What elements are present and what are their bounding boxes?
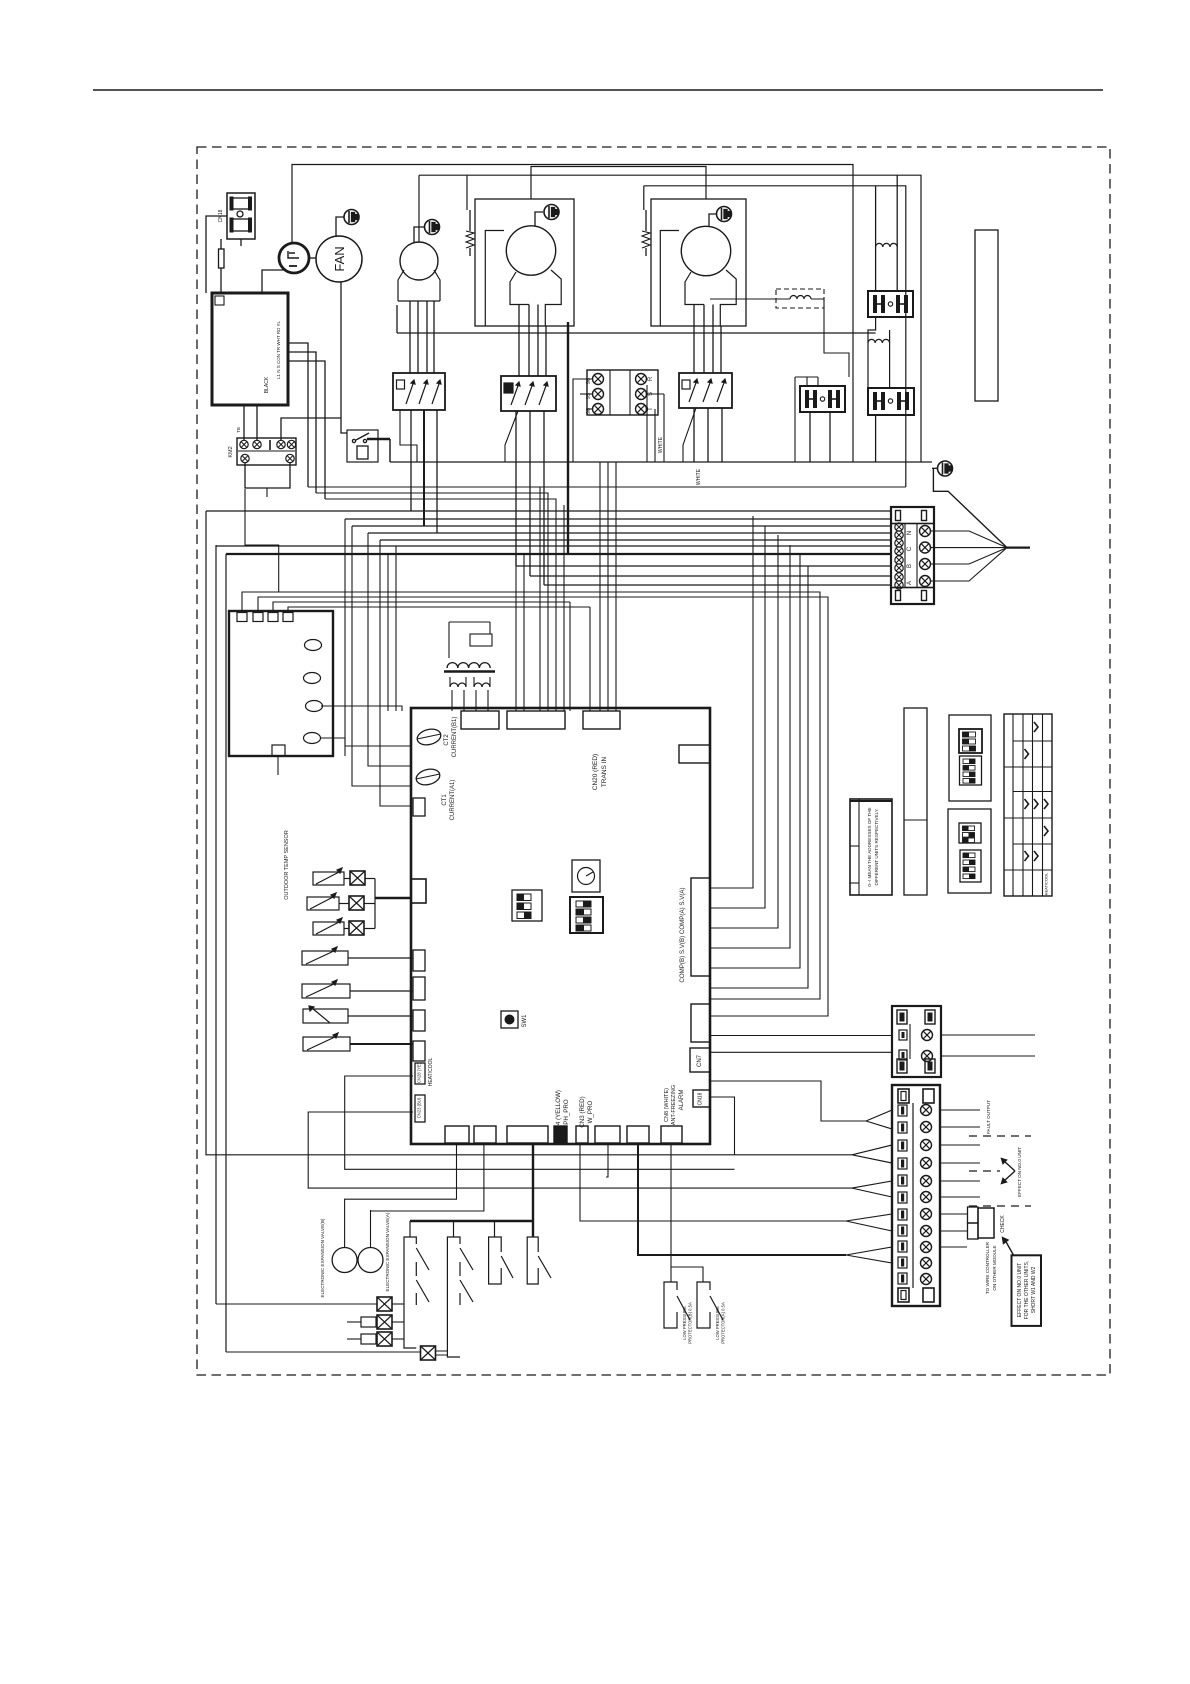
svg-text:CURRENT(A1): CURRENT(A1) xyxy=(450,780,456,821)
svg-text:LOW PRESSURE: LOW PRESSURE xyxy=(715,1306,720,1340)
svg-text:TRANS IN: TRANS IN xyxy=(601,757,608,788)
svg-text:PH_PRO: PH_PRO xyxy=(563,1099,570,1125)
svg-text:WHITE: WHITE xyxy=(696,468,702,485)
svg-text:DIFFERENT UNITS RESPECTIVELY.: DIFFERENT UNITS RESPECTIVELY. xyxy=(874,808,879,885)
svg-text:WHITE: WHITE xyxy=(658,436,664,453)
svg-text:ANT-FREEZING: ANT-FREEZING xyxy=(671,1085,677,1125)
svg-text:EFFECT ON NO.0 UNIT: EFFECT ON NO.0 UNIT xyxy=(1017,1147,1022,1197)
svg-text:PROTECTOR(B) 0.5A: PROTECTOR(B) 0.5A xyxy=(688,1302,693,1344)
svg-text:SHORT W1 AND W2: SHORT W1 AND W2 xyxy=(1031,1266,1037,1313)
svg-text:CN4 (YELLOW): CN4 (YELLOW) xyxy=(555,1090,562,1134)
svg-text:CN8 (WHITE): CN8 (WHITE) xyxy=(664,1088,670,1122)
svg-text:CURRENT(B1): CURRENT(B1) xyxy=(452,717,458,758)
svg-text:B: B xyxy=(907,564,913,568)
svg-text:BLACK: BLACK xyxy=(264,376,270,393)
svg-text:ELECTRONIC EXPANSION VALVE(B): ELECTRONIC EXPANSION VALVE(B) xyxy=(320,1218,325,1297)
svg-text:ALARM: ALARM xyxy=(679,1090,685,1111)
svg-text:T: T xyxy=(648,407,654,411)
svg-text:N: N xyxy=(907,531,913,535)
svg-text:R: R xyxy=(648,376,654,381)
svg-text:CN20 (RED): CN20 (RED) xyxy=(592,754,599,790)
svg-text:CT1: CT1 xyxy=(442,794,448,806)
svg-text:CN18: CN18 xyxy=(698,1092,704,1105)
svg-text:CN3 (RED): CN3 (RED) xyxy=(579,1096,586,1127)
svg-text:OUTDOOR TEMP SENSOR: OUTDOOR TEMP SENSOR xyxy=(284,830,290,900)
svg-text:FAN: FAN xyxy=(332,246,347,271)
svg-text:0--! MEAN THE ADDRESSES OF THE: 0--! MEAN THE ADDRESSES OF THE xyxy=(867,807,872,886)
svg-text:CN28 (YE): CN28 (YE) xyxy=(417,1062,422,1083)
svg-text:TO WIRE CONTROLLER: TO WIRE CONTROLLER xyxy=(985,1241,990,1294)
svg-text:FOR THE OTHER UNITS,: FOR THE OTHER UNITS, xyxy=(1024,1261,1030,1320)
svg-text:A: A xyxy=(907,581,913,585)
svg-text:TB: TB xyxy=(236,427,241,433)
svg-text:HEAT/COOL: HEAT/COOL xyxy=(1044,872,1049,896)
svg-text:CT2: CT2 xyxy=(444,734,450,746)
svg-text:C: C xyxy=(907,546,913,551)
svg-text:ELECTRONIC EXPANSION VALVE(A): ELECTRONIC EXPANSION VALVE(A) xyxy=(385,1212,390,1291)
svg-text:CN23 (BU): CN23 (BU) xyxy=(417,1097,422,1118)
svg-text:SW1: SW1 xyxy=(522,1014,528,1028)
svg-text:W_PRO: W_PRO xyxy=(587,1100,594,1123)
svg-text:CN7: CN7 xyxy=(697,1054,703,1067)
svg-text:FAULT OUTPUT: FAULT OUTPUT xyxy=(986,1100,991,1134)
svg-text:KM2: KM2 xyxy=(228,446,234,457)
svg-text:ON OTHER MODULE: ON OTHER MODULE xyxy=(992,1245,997,1290)
svg-text:COMP(B) S.V(B) COMP(A) S.V(A): COMP(B) S.V(B) COMP(A) S.V(A) xyxy=(679,887,686,982)
svg-text:LOW PRESSURE: LOW PRESSURE xyxy=(682,1306,687,1340)
svg-text:EFFECT ON NO.0 UNIT: EFFECT ON NO.0 UNIT xyxy=(1017,1263,1023,1317)
svg-text:CHECK: CHECK xyxy=(1000,1215,1006,1233)
svg-text:PROTECTOR(A) 0.5A: PROTECTOR(A) 0.5A xyxy=(721,1302,726,1344)
svg-text:HEAT/COOL: HEAT/COOL xyxy=(428,1058,434,1087)
svg-text:L1 N S CON TR WHT RD YL: L1 N S CON TR WHT RD YL xyxy=(276,320,281,379)
